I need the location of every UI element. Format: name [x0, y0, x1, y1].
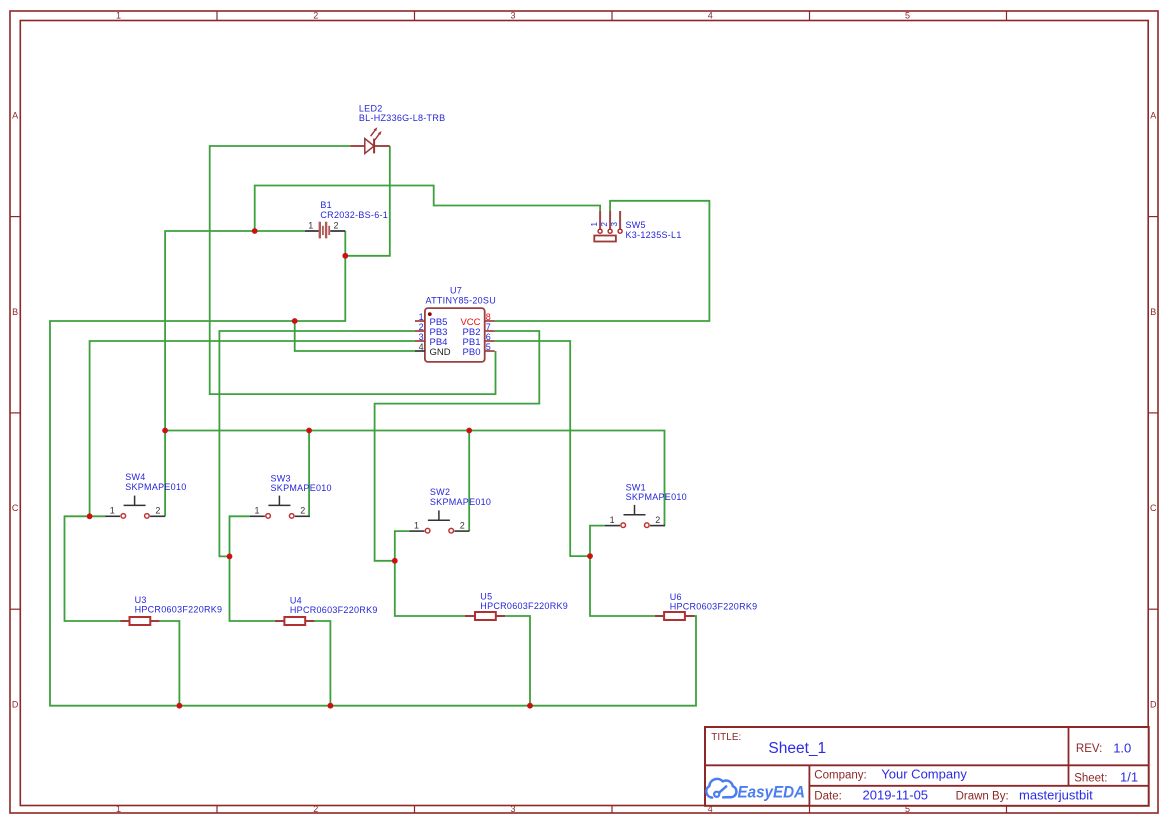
svg-text:SW4: SW4 [125, 472, 145, 482]
wire SW4 pin1 to U3 [65, 516, 121, 621]
junction [87, 513, 93, 519]
svg-text:2019-11-05: 2019-11-05 [863, 788, 929, 803]
svg-text:7: 7 [486, 322, 491, 332]
svg-text:1: 1 [419, 312, 424, 322]
junction [342, 253, 348, 259]
junction [527, 703, 533, 709]
svg-text:1/1: 1/1 [1120, 770, 1138, 785]
svg-text:Company:: Company: [814, 770, 866, 782]
svg-text:U4: U4 [290, 596, 302, 606]
switch SW5 [590, 211, 682, 242]
svg-text:2: 2 [419, 322, 424, 332]
resistor U4 [275, 596, 378, 626]
svg-text:B1: B1 [320, 200, 332, 210]
svg-text:HPCR0603F220RK9: HPCR0603F220RK9 [290, 605, 378, 615]
junction [252, 228, 258, 234]
wire PB2 to SW2 [375, 331, 540, 561]
wire PB4 to SW4 [90, 341, 415, 516]
wire row to SW3 pin2 [308, 431, 310, 517]
svg-text:U3: U3 [135, 595, 147, 605]
wire U4 to ground bus [315, 621, 331, 706]
svg-text:SKPMAPE010: SKPMAPE010 [626, 492, 687, 502]
svg-text:C: C [12, 503, 19, 513]
wire SW5 pin2 to U7 VCC [495, 201, 710, 321]
svg-text:2: 2 [460, 521, 465, 531]
wire U3 to ground bus [160, 621, 180, 706]
svg-text:REV:: REV: [1076, 743, 1102, 755]
battery B1 [305, 200, 388, 238]
svg-text:SW1: SW1 [626, 483, 646, 493]
svg-text:D: D [12, 699, 19, 709]
svg-text:SW5: SW5 [626, 220, 646, 230]
svg-text:3: 3 [510, 11, 515, 21]
svg-text:4: 4 [708, 11, 713, 21]
svg-text:1: 1 [110, 506, 115, 516]
svg-text:Your Company: Your Company [881, 767, 967, 782]
wire LED anode to PB0 [210, 146, 496, 394]
svg-text:ATTINY85-20SU: ATTINY85-20SU [426, 295, 497, 305]
svg-text:5: 5 [486, 342, 491, 352]
switch SW1 [605, 483, 687, 528]
svg-text:2: 2 [600, 222, 609, 227]
svg-text:K3-1235S-L1: K3-1235S-L1 [626, 230, 682, 240]
wire U5 to ground bus [505, 616, 530, 706]
wire switch row bus to SW1 pin2 [165, 431, 664, 526]
IC U7 [415, 286, 496, 362]
svg-text:2: 2 [313, 804, 318, 814]
svg-text:HPCR0603F220RK9: HPCR0603F220RK9 [670, 602, 758, 612]
EasyEDA logo [706, 779, 736, 798]
svg-text:Sheet_1: Sheet_1 [768, 740, 826, 757]
svg-text:1: 1 [308, 221, 313, 231]
wire SW3 pin1 to U4 [230, 516, 275, 621]
wire PB1 to SW1 [495, 341, 590, 556]
wire battery- ground run to U6 [50, 231, 696, 706]
svg-text:B: B [1150, 307, 1156, 317]
svg-text:2: 2 [655, 515, 660, 525]
svg-text:HPCR0603F220RK9: HPCR0603F220RK9 [135, 605, 223, 615]
svg-text:2: 2 [313, 11, 318, 21]
svg-text:1: 1 [610, 515, 615, 525]
junction [392, 558, 398, 564]
svg-text:B: B [12, 307, 18, 317]
svg-text:Sheet:: Sheet: [1074, 773, 1107, 785]
svg-text:EasyEDA: EasyEDA [738, 783, 806, 801]
svg-text:U7: U7 [450, 286, 462, 296]
svg-text:1: 1 [414, 521, 419, 531]
svg-text:1: 1 [116, 804, 121, 814]
svg-text:SKPMAPE010: SKPMAPE010 [271, 483, 332, 493]
svg-text:A: A [12, 111, 18, 121]
wire battery+ rail down to SW4 pin2 [165, 231, 305, 516]
wire PB3 to SW3 [219, 331, 415, 556]
svg-text:SKPMAPE010: SKPMAPE010 [125, 482, 186, 492]
junction [227, 554, 233, 560]
svg-text:6: 6 [486, 332, 491, 342]
svg-text:4: 4 [419, 342, 424, 352]
svg-text:CR2032-BS-6-1: CR2032-BS-6-1 [320, 210, 388, 220]
junction [177, 703, 183, 709]
svg-text:Drawn By:: Drawn By: [956, 791, 1009, 803]
svg-text:GND: GND [430, 347, 451, 358]
svg-text:PB0: PB0 [463, 347, 481, 358]
junction [587, 553, 593, 559]
svg-text:SW3: SW3 [271, 474, 291, 484]
svg-text:TITLE:: TITLE: [711, 732, 741, 743]
resistor U5 [465, 591, 568, 620]
junction [306, 428, 312, 434]
svg-text:2: 2 [155, 506, 160, 516]
junction [466, 428, 472, 434]
wire row to SW2 pin2 [468, 431, 470, 532]
svg-text:5: 5 [905, 11, 910, 21]
resistor U6 [655, 592, 758, 620]
svg-text:3: 3 [610, 222, 619, 227]
led LED2 [350, 103, 445, 153]
svg-text:U5: U5 [480, 591, 492, 601]
wire SW2 pin1 to U5 [395, 531, 465, 616]
svg-text:LED2: LED2 [359, 103, 383, 113]
svg-text:1.0: 1.0 [1113, 740, 1131, 755]
svg-text:BL-HZ336G-L8-TRB: BL-HZ336G-L8-TRB [359, 113, 446, 123]
wire SW1 pin1 to U6 [590, 526, 655, 616]
svg-text:2: 2 [334, 221, 339, 231]
switch SW3 [250, 474, 332, 519]
svg-text:SKPMAPE010: SKPMAPE010 [430, 497, 491, 507]
title block [705, 727, 1149, 806]
svg-text:1: 1 [590, 222, 599, 227]
svg-text:3: 3 [510, 804, 515, 814]
svg-text:2: 2 [300, 506, 305, 516]
switch SW4 [105, 472, 186, 518]
junction [162, 428, 168, 434]
svg-text:SW2: SW2 [430, 487, 450, 497]
svg-text:1: 1 [116, 11, 121, 21]
svg-text:U6: U6 [670, 592, 682, 602]
svg-text:A: A [1150, 111, 1156, 121]
svg-text:HPCR0603F220RK9: HPCR0603F220RK9 [480, 601, 568, 611]
resistor U3 [120, 595, 222, 625]
wire GND pin branch [295, 321, 415, 351]
wire LED cathode [345, 146, 390, 256]
wire battery+ to SW5 pin1 [255, 186, 600, 232]
junction [292, 318, 298, 324]
svg-text:D: D [1150, 699, 1157, 709]
switch SW2 [409, 487, 491, 533]
svg-text:masterjustbit: masterjustbit [1019, 788, 1093, 803]
svg-text:C: C [1150, 503, 1157, 513]
svg-text:1: 1 [255, 506, 260, 516]
svg-text:8: 8 [486, 312, 491, 322]
svg-text:Date:: Date: [814, 791, 842, 803]
svg-text:3: 3 [419, 332, 424, 342]
junction [328, 703, 334, 709]
